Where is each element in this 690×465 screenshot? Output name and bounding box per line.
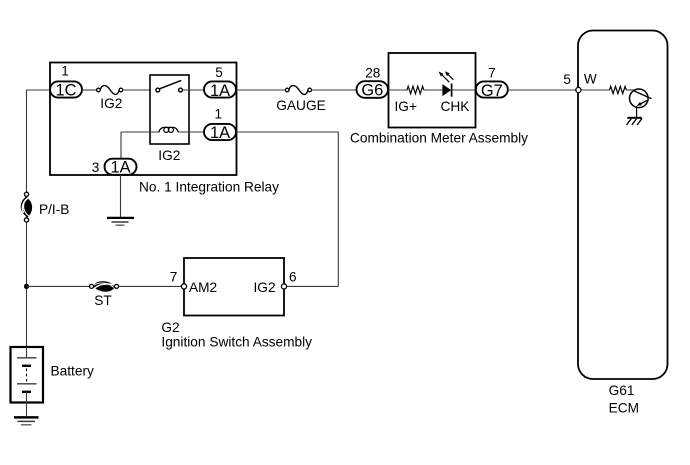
wire ST to ignition switch pin 7 — [119, 285, 182, 287]
ECM box — [578, 31, 668, 416]
wire switch to connector 1A pin 5 — [182, 89, 204, 91]
svg-text:G61: G61 — [609, 383, 635, 398]
wire left riser middle section — [26, 222, 28, 347]
wire ECM pin to resistor — [581, 89, 610, 91]
svg-text:GAUGE: GAUGE — [276, 98, 325, 113]
svg-text:W: W — [584, 72, 597, 87]
connector terminal G6 — [357, 81, 389, 99]
wire junction to fusible link ST — [27, 285, 90, 287]
fusible link ST — [90, 281, 119, 308]
svg-text:IG2: IG2 — [158, 148, 180, 163]
svg-text:No. 1 Integration Relay: No. 1 Integration Relay — [139, 179, 279, 194]
wire coil riser down to connector 1A pin 3 — [120, 132, 122, 159]
svg-text:G7: G7 — [481, 82, 503, 100]
wire 1A to fuse GAUGE — [236, 89, 285, 91]
svg-text:7: 7 — [488, 66, 496, 81]
wire 1A pin3 to ground — [120, 175, 122, 217]
wire main feed y=90 from left riser to connector 1C — [27, 89, 51, 91]
svg-text:ECM: ECM — [609, 401, 639, 416]
svg-text:IG2: IG2 — [254, 280, 276, 295]
wire G6 to resistor IG+ — [388, 89, 408, 91]
connector terminal 1C — [50, 81, 82, 99]
LED CHK — [439, 71, 470, 114]
relay coil IG2 — [158, 127, 180, 162]
svg-text:AM2: AM2 — [189, 280, 217, 295]
svg-text:Battery: Battery — [51, 363, 95, 378]
wire resistor to transistor — [626, 89, 635, 91]
svg-text:1A: 1A — [210, 82, 230, 100]
wire resistor to LED CHK — [424, 89, 443, 91]
svg-text:5: 5 — [215, 65, 223, 80]
wire coil to connector 1A pin 1 — [178, 131, 204, 133]
wire LED to connector G7 — [452, 89, 476, 91]
svg-text:IG2: IG2 — [100, 96, 122, 111]
svg-text:1A: 1A — [210, 124, 230, 142]
svg-text:IG+: IG+ — [395, 99, 417, 114]
svg-text:1C: 1C — [56, 82, 77, 100]
svg-text:G6: G6 — [361, 82, 383, 100]
resistor in ECM — [610, 86, 627, 93]
svg-text:G2: G2 — [161, 320, 179, 335]
relay inner box — [150, 75, 189, 144]
fusible link P/I-B — [21, 192, 69, 222]
wire 1A pin1 to right riser — [236, 132, 338, 286]
transistor Q (output driver) — [630, 89, 652, 108]
svg-text:6: 6 — [289, 269, 297, 284]
Combination Meter Assembly box — [350, 53, 528, 145]
svg-text:28: 28 — [365, 66, 380, 81]
Ignition Switch Assembly box — [161, 258, 312, 349]
wire transistor emitter to chassis ground — [636, 106, 638, 118]
wire relay coil row y=132 from riser to inner box — [121, 131, 160, 133]
svg-text:1: 1 — [61, 64, 69, 79]
connector terminal 1A (pin 3) — [105, 159, 137, 177]
ground below relay — [107, 218, 134, 225]
relay switch contact — [156, 80, 183, 92]
No. 1 Integration Relay box — [50, 63, 279, 195]
wire fuse IG2 to relay switch — [123, 89, 156, 91]
ground below battery — [14, 417, 39, 424]
fuse IG2 — [97, 86, 123, 112]
pin 7 terminal circle — [181, 284, 186, 289]
ECM pin 5 terminal circle — [576, 87, 581, 92]
svg-text:5: 5 — [563, 72, 571, 87]
svg-text:7: 7 — [170, 269, 178, 284]
svg-text:Combination Meter Assembly: Combination Meter Assembly — [350, 130, 528, 145]
svg-text:CHK: CHK — [441, 99, 470, 114]
resistor IG+ — [395, 86, 424, 114]
fuse GAUGE — [276, 86, 325, 113]
wire left riser x=26.5 top section — [26, 90, 28, 192]
connector terminal 1A (pin 1) — [204, 124, 236, 142]
chassis ground in ECM — [627, 118, 643, 125]
battery B1 — [11, 347, 95, 417]
connector terminal G7 — [476, 81, 508, 100]
svg-text:P/I-B: P/I-B — [39, 202, 69, 217]
svg-text:Ignition Switch Assembly: Ignition Switch Assembly — [161, 334, 312, 349]
wire G7 to ECM pin 5 — [508, 89, 576, 91]
svg-text:1A: 1A — [110, 159, 130, 177]
junction node battery/ST — [24, 284, 29, 289]
connector terminal 1A (pin 5) — [204, 81, 236, 100]
svg-text:ST: ST — [94, 293, 112, 308]
svg-text:3: 3 — [92, 160, 100, 175]
pin 6 terminal circle — [281, 284, 286, 289]
svg-text:1: 1 — [215, 106, 223, 121]
wire ignition pin 6 to right riser — [287, 285, 339, 287]
wire fuse GAUGE to connector G6 — [312, 89, 358, 91]
wire 1C to fuse IG2 — [82, 89, 97, 91]
